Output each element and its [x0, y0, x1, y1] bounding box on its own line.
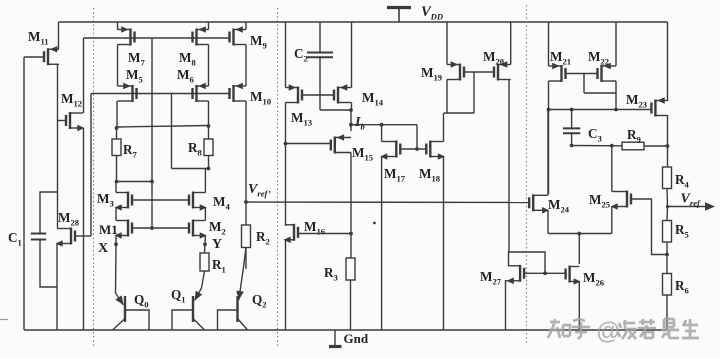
resistor R2	[242, 225, 251, 248]
artifact dot	[373, 222, 376, 225]
transistor M21	[549, 63, 566, 82]
wire M11 drain column	[58, 64, 59, 228]
wire M7 source to rail	[117, 22, 119, 30]
resistor R8	[204, 139, 213, 156]
wire M27 source drop	[506, 281, 509, 330]
wire bias riser a	[151, 38, 153, 228]
transistor Q1	[172, 271, 205, 330]
wire M22 diode link	[584, 92, 616, 94]
transistor M17	[380, 141, 400, 160]
wire M14 source to rail	[351, 22, 353, 88]
svg-text:Q2: Q2	[252, 292, 267, 310]
label M12	[61, 91, 82, 109]
svg-text:M17: M17	[384, 166, 406, 184]
transistor M27	[507, 265, 524, 284]
gate bus M26 M27	[524, 272, 566, 274]
resistor R5	[663, 221, 672, 243]
label R1	[212, 257, 226, 275]
transistor M14	[334, 84, 352, 103]
node Vref	[666, 205, 669, 208]
svg-text:Ib: Ib	[354, 115, 365, 132]
wire M21 source to rail	[548, 22, 550, 66]
label M20	[483, 49, 504, 67]
wire M11 gate column to ground	[23, 57, 25, 330]
transistor M19	[447, 61, 464, 80]
wire R8 bottom to M4 drain	[172, 169, 209, 193]
transistor M18	[426, 141, 445, 160]
svg-text:M4: M4	[213, 194, 230, 212]
label VDD	[421, 4, 443, 22]
svg-text:M15: M15	[352, 145, 373, 163]
wire Vref2 line to M24 gate	[246, 201, 530, 204]
wire C2 bottom riser	[319, 57, 321, 110]
label M8	[179, 50, 196, 68]
wire M8 source to rail	[208, 22, 210, 30]
transistor M7	[118, 26, 135, 45]
node Y	[203, 242, 207, 246]
svg-text:R4: R4	[675, 172, 690, 190]
label R3	[324, 265, 338, 283]
wire M7 drain to M5	[117, 45, 119, 87]
junction C3 bottom	[570, 144, 574, 148]
label Vref2	[248, 182, 271, 199]
transistor M11	[44, 46, 59, 65]
label M25	[589, 192, 610, 210]
wire M11 gate	[24, 56, 44, 58]
wire M12 gate	[58, 120, 67, 122]
ground symbol	[329, 330, 342, 347]
svg-text:M12: M12	[61, 91, 82, 109]
transistor M25	[611, 191, 632, 210]
power symbol VDD	[387, 8, 411, 23]
wire M27 drain loop	[509, 252, 546, 273]
watermark	[548, 318, 699, 345]
wire M1 source to X	[115, 236, 117, 246]
junction R8 bottom	[207, 167, 211, 171]
wire M18 source to ground	[443, 157, 445, 331]
svg-text:M21: M21	[550, 49, 571, 67]
label Y	[212, 237, 222, 252]
svg-text:@: @	[596, 318, 620, 345]
wire M4 to M2	[204, 208, 206, 221]
junction bias riser R7 node	[150, 180, 154, 184]
wire tail bus	[548, 233, 612, 235]
transistor M24	[529, 194, 549, 213]
svg-text:M3: M3	[97, 191, 114, 209]
svg-text:M28: M28	[58, 210, 80, 228]
wire R6 to ground	[666, 295, 668, 330]
wire M3 to M1	[115, 208, 117, 221]
transistor M2	[189, 220, 207, 239]
svg-text:M23: M23	[626, 92, 647, 110]
wire M21 drain column	[548, 81, 550, 194]
svg-text:M14: M14	[362, 90, 384, 108]
label M19	[421, 65, 442, 83]
node X	[114, 242, 118, 246]
wire M6 drain to R8	[208, 101, 210, 126]
label C3	[588, 126, 602, 144]
wire M15 gate line	[286, 143, 331, 145]
label Q1	[171, 287, 186, 305]
svg-text:R2: R2	[256, 229, 270, 247]
svg-text:M25: M25	[589, 192, 610, 210]
label M11	[28, 29, 49, 47]
junction tail	[577, 232, 581, 236]
wire Vref2 to R2	[245, 202, 247, 225]
label R2	[256, 229, 270, 247]
wire R2 bottom	[245, 248, 247, 270]
svg-text:M5: M5	[126, 67, 143, 85]
transistor M1	[115, 220, 133, 239]
svg-text:M8: M8	[179, 50, 196, 68]
svg-text:M19: M19	[421, 65, 442, 83]
svg-text:C1: C1	[8, 230, 22, 248]
capacitor C2	[307, 53, 333, 58]
label M2	[209, 219, 226, 237]
svg-text:Gnd: Gnd	[344, 331, 369, 346]
junction M1 gate line	[150, 226, 154, 230]
svg-text:M22: M22	[588, 49, 609, 67]
svg-text:M13: M13	[291, 110, 312, 128]
svg-text:Vref: Vref	[681, 192, 702, 209]
wire M24 source drop	[547, 210, 549, 233]
label M3	[97, 191, 114, 209]
wire Vref arrow line	[668, 206, 707, 208]
resistor R4	[663, 167, 672, 189]
junction R8 top	[207, 124, 211, 128]
svg-text:R5: R5	[675, 222, 689, 240]
junction M17 drain	[380, 123, 384, 127]
wire M13 source to rail	[285, 22, 287, 88]
label M7	[128, 50, 145, 68]
wire R8 bottom lead	[208, 156, 210, 169]
junction M16 gate node	[349, 232, 353, 236]
gate line M1 M2	[132, 227, 189, 229]
wire M9 drain to M10	[245, 45, 247, 87]
label Q0	[134, 292, 149, 310]
scan artifact	[0, 319, 8, 321]
wire C3 top riser	[571, 110, 573, 129]
wire: VDD top rail	[59, 21, 668, 23]
transistor M6	[193, 83, 209, 102]
wire M22 drain drop	[615, 81, 617, 110]
label M26	[583, 270, 605, 288]
label M28	[58, 210, 80, 228]
wire M12 source to ground	[83, 128, 85, 330]
wire M24 drain riser	[547, 110, 549, 196]
svg-text:M1: M1	[99, 222, 118, 237]
label M23	[626, 92, 647, 110]
wire M15 drain down	[350, 153, 352, 259]
junction M27 diode	[543, 271, 547, 275]
wire M23 gate line	[549, 109, 652, 111]
wire M28 gate riser	[90, 94, 92, 237]
resistor R7	[112, 139, 121, 156]
label M4	[213, 194, 230, 212]
transistor M22	[598, 63, 617, 82]
dotted section divider 3	[526, 5, 528, 345]
resistor R1	[200, 253, 209, 271]
label Gnd	[344, 331, 369, 346]
label M10	[250, 89, 271, 107]
resistor R3	[346, 258, 355, 280]
wire M5 drain to R7	[116, 101, 118, 128]
svg-text:C2: C2	[294, 46, 308, 64]
wire M8 drain to M6	[208, 45, 210, 87]
label R7	[123, 142, 138, 160]
capacitor C3	[563, 128, 580, 133]
wire Ib line	[351, 124, 417, 126]
label M22	[588, 49, 609, 67]
junction M3 drain	[115, 180, 119, 184]
label M24	[548, 197, 570, 215]
label M15	[352, 145, 373, 163]
label X	[98, 241, 108, 256]
svg-text:Q0: Q0	[134, 292, 149, 310]
transistor M3	[115, 192, 133, 211]
wire M18 drain riser	[443, 113, 445, 142]
wire M22 diode riser	[583, 74, 585, 94]
gate line M17 M18	[400, 148, 426, 150]
gate bias line cascode	[91, 93, 230, 95]
junction M25 drain tap	[610, 144, 614, 148]
junction M22 drain	[614, 108, 618, 112]
wire M23 drain down	[667, 116, 669, 168]
label R8	[188, 140, 203, 158]
svg-text:M10: M10	[250, 89, 271, 107]
label Vref	[681, 192, 702, 209]
wire R7 top to R8 top	[117, 126, 209, 128]
wire C1 top lead	[40, 192, 58, 234]
svg-text:M11: M11	[28, 29, 49, 47]
label M5	[126, 67, 143, 85]
transistor M15	[331, 134, 351, 153]
svg-text:M27: M27	[480, 269, 502, 287]
label C1	[8, 230, 22, 248]
ground rail	[24, 329, 668, 331]
label M17	[384, 166, 406, 184]
wire M9 source to rail	[245, 22, 247, 30]
label Q2	[252, 292, 267, 310]
label M1	[99, 222, 118, 237]
label R4	[675, 172, 690, 190]
transistor M28	[56, 228, 76, 247]
svg-text:M20: M20	[483, 49, 504, 67]
label C2	[294, 46, 308, 64]
transistor M5	[118, 83, 137, 102]
gate line M3 M4	[132, 199, 189, 201]
junction C3 top	[570, 108, 574, 112]
wire M19 diode riser	[473, 72, 475, 113]
wire M16 source to ground	[285, 240, 287, 330]
transistor Q0	[113, 244, 149, 330]
transistor M13	[286, 84, 303, 103]
wire C3 bottom lead	[571, 133, 573, 145]
wire M19 drain loop	[447, 80, 474, 114]
junction Ib	[349, 123, 353, 127]
junction M21 drain	[547, 108, 551, 112]
svg-text:Y: Y	[212, 237, 222, 252]
wire M19 source to rail	[446, 22, 448, 65]
svg-text:R8: R8	[188, 140, 203, 158]
wire M13 drain down	[285, 103, 287, 227]
wire Vref to R5	[666, 207, 669, 221]
wire R5 to R6	[666, 242, 668, 274]
capacitor C1	[31, 234, 46, 240]
wire M20 source to rail	[510, 22, 512, 65]
svg-text:X: X	[98, 241, 108, 256]
wire M20 drain column	[508, 80, 510, 253]
gate line M13 M14	[302, 94, 334, 96]
wire drain link y110	[320, 109, 351, 111]
wire rail end to M23 source	[667, 22, 669, 101]
svg-text:M9: M9	[250, 33, 267, 51]
gate bias line upper	[84, 37, 230, 39]
wire Ib column	[350, 110, 352, 131]
wire M11 source to rail	[58, 22, 60, 49]
wire C1 bottom lead	[40, 240, 58, 288]
transistor M10	[230, 83, 247, 102]
wire M14 drain down	[351, 103, 353, 111]
wire M28 source to ground	[56, 244, 58, 331]
wire M12 drain riser	[83, 38, 85, 113]
label M16	[304, 219, 326, 237]
wire R4 to Vref node	[666, 189, 669, 207]
label M6	[177, 67, 194, 85]
dotted section divider 1	[93, 8, 95, 346]
transistor M23	[651, 97, 668, 116]
wire gates riser	[416, 125, 418, 149]
wire M16 gate line	[298, 233, 352, 235]
svg-text:R9: R9	[627, 127, 641, 145]
svg-text:M7: M7	[128, 50, 145, 68]
wire M17 drain riser	[381, 125, 383, 142]
transistor M20	[494, 61, 511, 80]
transistor M4	[189, 192, 207, 211]
label M9	[250, 33, 267, 51]
svg-text:M2: M2	[209, 219, 226, 237]
svg-text:R7: R7	[123, 142, 138, 160]
svg-text:M24: M24	[548, 197, 570, 215]
wire R9 right lead	[644, 145, 668, 147]
svg-text:M26: M26	[583, 270, 605, 288]
junction a	[349, 108, 353, 112]
wire bias riser b	[171, 94, 173, 169]
wire M3 drain link	[117, 181, 153, 183]
junction R9 right	[666, 144, 670, 148]
wire M10 drain to Vref node	[245, 101, 247, 202]
dotted section divider 2	[277, 8, 279, 346]
svg-text:Vref’: Vref’	[248, 182, 271, 199]
gate line M21 M22	[566, 73, 598, 75]
transistor M16	[284, 224, 299, 243]
wire C2 top	[319, 22, 321, 53]
transistor M12	[66, 112, 85, 131]
wire M17 source to ground	[381, 157, 383, 331]
wire M26 drain riser	[578, 234, 580, 265]
label M14	[362, 90, 384, 108]
svg-text:R1: R1	[212, 257, 226, 275]
wire C3 to R9	[572, 145, 622, 147]
wire R7 top lead	[116, 128, 118, 139]
svg-text:VDD: VDD	[421, 4, 443, 22]
transistor M9	[230, 26, 247, 45]
label R6	[675, 278, 690, 296]
wire M22 source to rail	[615, 22, 617, 66]
label R9	[627, 127, 641, 145]
resistor R6	[663, 274, 672, 296]
svg-text:M6: M6	[177, 67, 194, 85]
junction M15 gate	[284, 142, 288, 146]
svg-text:M18: M18	[419, 166, 441, 184]
transistor M26	[566, 266, 581, 285]
gate line M19 M20	[464, 71, 493, 73]
svg-text:C3: C3	[588, 126, 602, 144]
label M27	[480, 269, 502, 287]
arrow Vref	[705, 202, 715, 210]
resistor R9	[622, 142, 644, 150]
svg-text:R3: R3	[324, 265, 338, 283]
junction feedback tap	[665, 253, 669, 257]
label M18	[419, 166, 441, 184]
wire R8 top lead	[208, 126, 210, 139]
label M13	[291, 110, 312, 128]
wire M25 gate wire	[631, 199, 667, 255]
svg-text:Q1: Q1	[171, 287, 186, 305]
node Vref2	[244, 200, 248, 204]
wire M3 drain lead	[115, 182, 117, 193]
junction R7 top	[115, 126, 119, 130]
wire M2 source to Y	[204, 236, 206, 245]
wire M28 gate	[75, 235, 91, 237]
junction M17 M18 gates	[415, 147, 419, 151]
transistor Q2	[218, 248, 248, 331]
wire M18 to M19 link	[444, 112, 448, 114]
wire M25 drain riser	[611, 146, 613, 192]
wire R3 to ground	[350, 280, 352, 330]
label M21	[550, 49, 571, 67]
svg-text:R6: R6	[675, 278, 690, 296]
wire Y to R1	[204, 244, 207, 253]
wire R7 bottom lead	[116, 156, 118, 182]
transistor M8	[193, 26, 209, 45]
label Ib	[354, 115, 365, 132]
wire M25 source drop	[611, 207, 613, 234]
wire M26 source to ground	[578, 282, 580, 331]
label R5	[675, 222, 689, 240]
